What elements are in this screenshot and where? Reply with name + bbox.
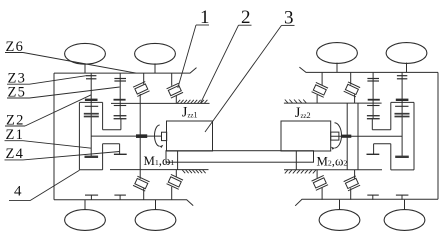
gear thick bar lower shaft D xyxy=(395,156,409,158)
gear mesh bar shaft D top of gearbox xyxy=(396,99,409,101)
left unit outer wall xyxy=(53,73,55,200)
gear stub upper on right housing shelf xyxy=(371,119,373,130)
bottom-right axle shaft line xyxy=(295,199,438,206)
coupling 3 (elastic, top-right inner) xyxy=(312,73,328,104)
coupling bottom-left outer xyxy=(167,170,183,200)
wheel rear-right-2 xyxy=(384,200,425,231)
wheel front-left-2 xyxy=(135,43,176,73)
bearing support bottom-right (hatched) xyxy=(284,170,382,174)
coupling bottom-right inner xyxy=(312,170,328,200)
svg-text:1: 1 xyxy=(200,7,210,28)
svg-text:Jzz2: Jzz2 xyxy=(295,105,311,121)
leader line callout 2 xyxy=(201,25,252,103)
svg-text:Z6: Z6 xyxy=(6,39,25,55)
vertical link left (support to shaft) xyxy=(139,103,141,169)
bearing support top-left (hatched) xyxy=(111,100,210,104)
gear Z4 stub lower on housing shelf xyxy=(114,144,127,155)
wheel front-right-2 xyxy=(386,43,427,73)
flange coupling on motor 2 shaft xyxy=(341,135,351,138)
coupling 1 (elastic, top-left inner) xyxy=(133,73,149,103)
leader line Z5 xyxy=(7,87,120,98)
leader line callout 1 xyxy=(178,25,209,88)
bearing support bottom-left (hatched) xyxy=(110,170,209,174)
motor M2 mount stem xyxy=(295,151,297,170)
bottom gear stub right axle 2 xyxy=(396,195,409,200)
leader line Z3 xyxy=(7,76,86,85)
coupling 2 (elastic, top-left outer) xyxy=(167,73,183,103)
gear crossbar shaft A in gearbox xyxy=(85,105,98,107)
right gearbox housing xyxy=(372,102,414,169)
bearing block motor 1 shaft xyxy=(162,132,167,140)
gear double bar on shaft D xyxy=(395,114,410,117)
bearing block motor 2 shaft xyxy=(331,132,339,140)
frame rail connecting motors xyxy=(166,151,314,163)
leader line Z2 xyxy=(5,95,91,126)
motor M1 mount stem xyxy=(177,151,179,170)
wheel rear-left-1 xyxy=(65,200,106,231)
svg-text:M2,ω2: M2,ω2 xyxy=(317,155,348,169)
vertical shaft A (left, x=91) xyxy=(90,73,92,157)
coupling 4 (elastic, top-right outer) xyxy=(344,73,360,104)
gear Z6 bars on shaft B xyxy=(114,79,126,82)
gear crossbar shaft C in gearbox xyxy=(367,105,379,107)
vertical shaft C (right, x=373) xyxy=(372,73,374,119)
gear crossbar shaft B in gearbox xyxy=(114,105,126,107)
gear Z1 thick bar lower shaft A xyxy=(85,156,99,158)
coupling bottom-right outer xyxy=(344,170,360,200)
bottom-left axle shaft line xyxy=(54,200,193,206)
wheel rear-right-1 xyxy=(319,200,360,231)
gear mesh bar shaft A top of gearbox xyxy=(85,99,98,101)
gear Z2 double bar on shaft A xyxy=(84,114,99,117)
top-right axle shaft line xyxy=(299,67,438,72)
vertical shaft D (right, x=402) xyxy=(401,73,403,157)
output shaft to motor 1 xyxy=(91,135,161,137)
svg-text:4: 4 xyxy=(14,184,22,200)
bearing support top-right (hatched) xyxy=(284,100,382,104)
wheel front-right-1 xyxy=(317,43,358,73)
gear bars on shaft C xyxy=(367,79,379,82)
gear bar shaft B above gearbox line xyxy=(114,99,126,101)
vertical shaft B (left, x=120) xyxy=(119,73,121,119)
gear bar shaft C above gearbox line xyxy=(368,99,380,101)
gear Z3 bars on shaft A xyxy=(86,76,96,79)
leader line callout 4 xyxy=(9,170,79,200)
coupling bottom-left inner xyxy=(133,170,149,200)
svg-text:M1,ω1: M1,ω1 xyxy=(144,154,175,168)
vertical support right of motor 2 shaft xyxy=(357,103,359,170)
svg-text:Z1: Z1 xyxy=(6,127,25,143)
motor M2 box xyxy=(281,121,331,151)
bottom gear stub left axle 2 xyxy=(114,195,126,200)
output shaft to motor 2 xyxy=(331,135,402,137)
gear stub lower on right housing shelf xyxy=(367,144,380,155)
wheel front-left-1 xyxy=(65,43,106,73)
wheel rear-left-2 xyxy=(135,200,176,231)
svg-text:Z4: Z4 xyxy=(6,146,25,162)
svg-text:Z5: Z5 xyxy=(8,84,27,100)
flange coupling on motor 1 shaft xyxy=(136,134,147,138)
motor M1 box xyxy=(167,121,213,151)
left gearbox housing xyxy=(79,102,121,169)
gear bars on shaft D xyxy=(397,76,407,79)
gear double bar on shaft B xyxy=(114,116,127,119)
svg-text:Z2: Z2 xyxy=(6,112,25,128)
leader line Z1 xyxy=(5,141,92,149)
leader line callout 3 xyxy=(205,25,295,132)
bottom gear stub left axle 1 xyxy=(85,195,98,200)
leader line Z6 xyxy=(5,53,136,74)
vertical support left of motor 2 shaft xyxy=(346,103,348,170)
bottom gear stub right axle 1 xyxy=(367,195,379,200)
right unit outer wall xyxy=(437,72,439,199)
rotation arrow motor 2 shaft xyxy=(335,123,342,148)
svg-text:2: 2 xyxy=(241,7,251,28)
gear stub upper on housing shelf xyxy=(120,119,122,130)
svg-text:3: 3 xyxy=(284,7,294,28)
leader line Z4 xyxy=(5,152,120,160)
rotation arrow motor 1 shaft xyxy=(155,125,160,146)
gear crossbar shaft D in gearbox xyxy=(395,105,408,107)
svg-text:Jzz1: Jzz1 xyxy=(182,104,198,120)
top-left axle shaft line xyxy=(54,68,197,74)
gear double bar on shaft C xyxy=(367,116,380,119)
